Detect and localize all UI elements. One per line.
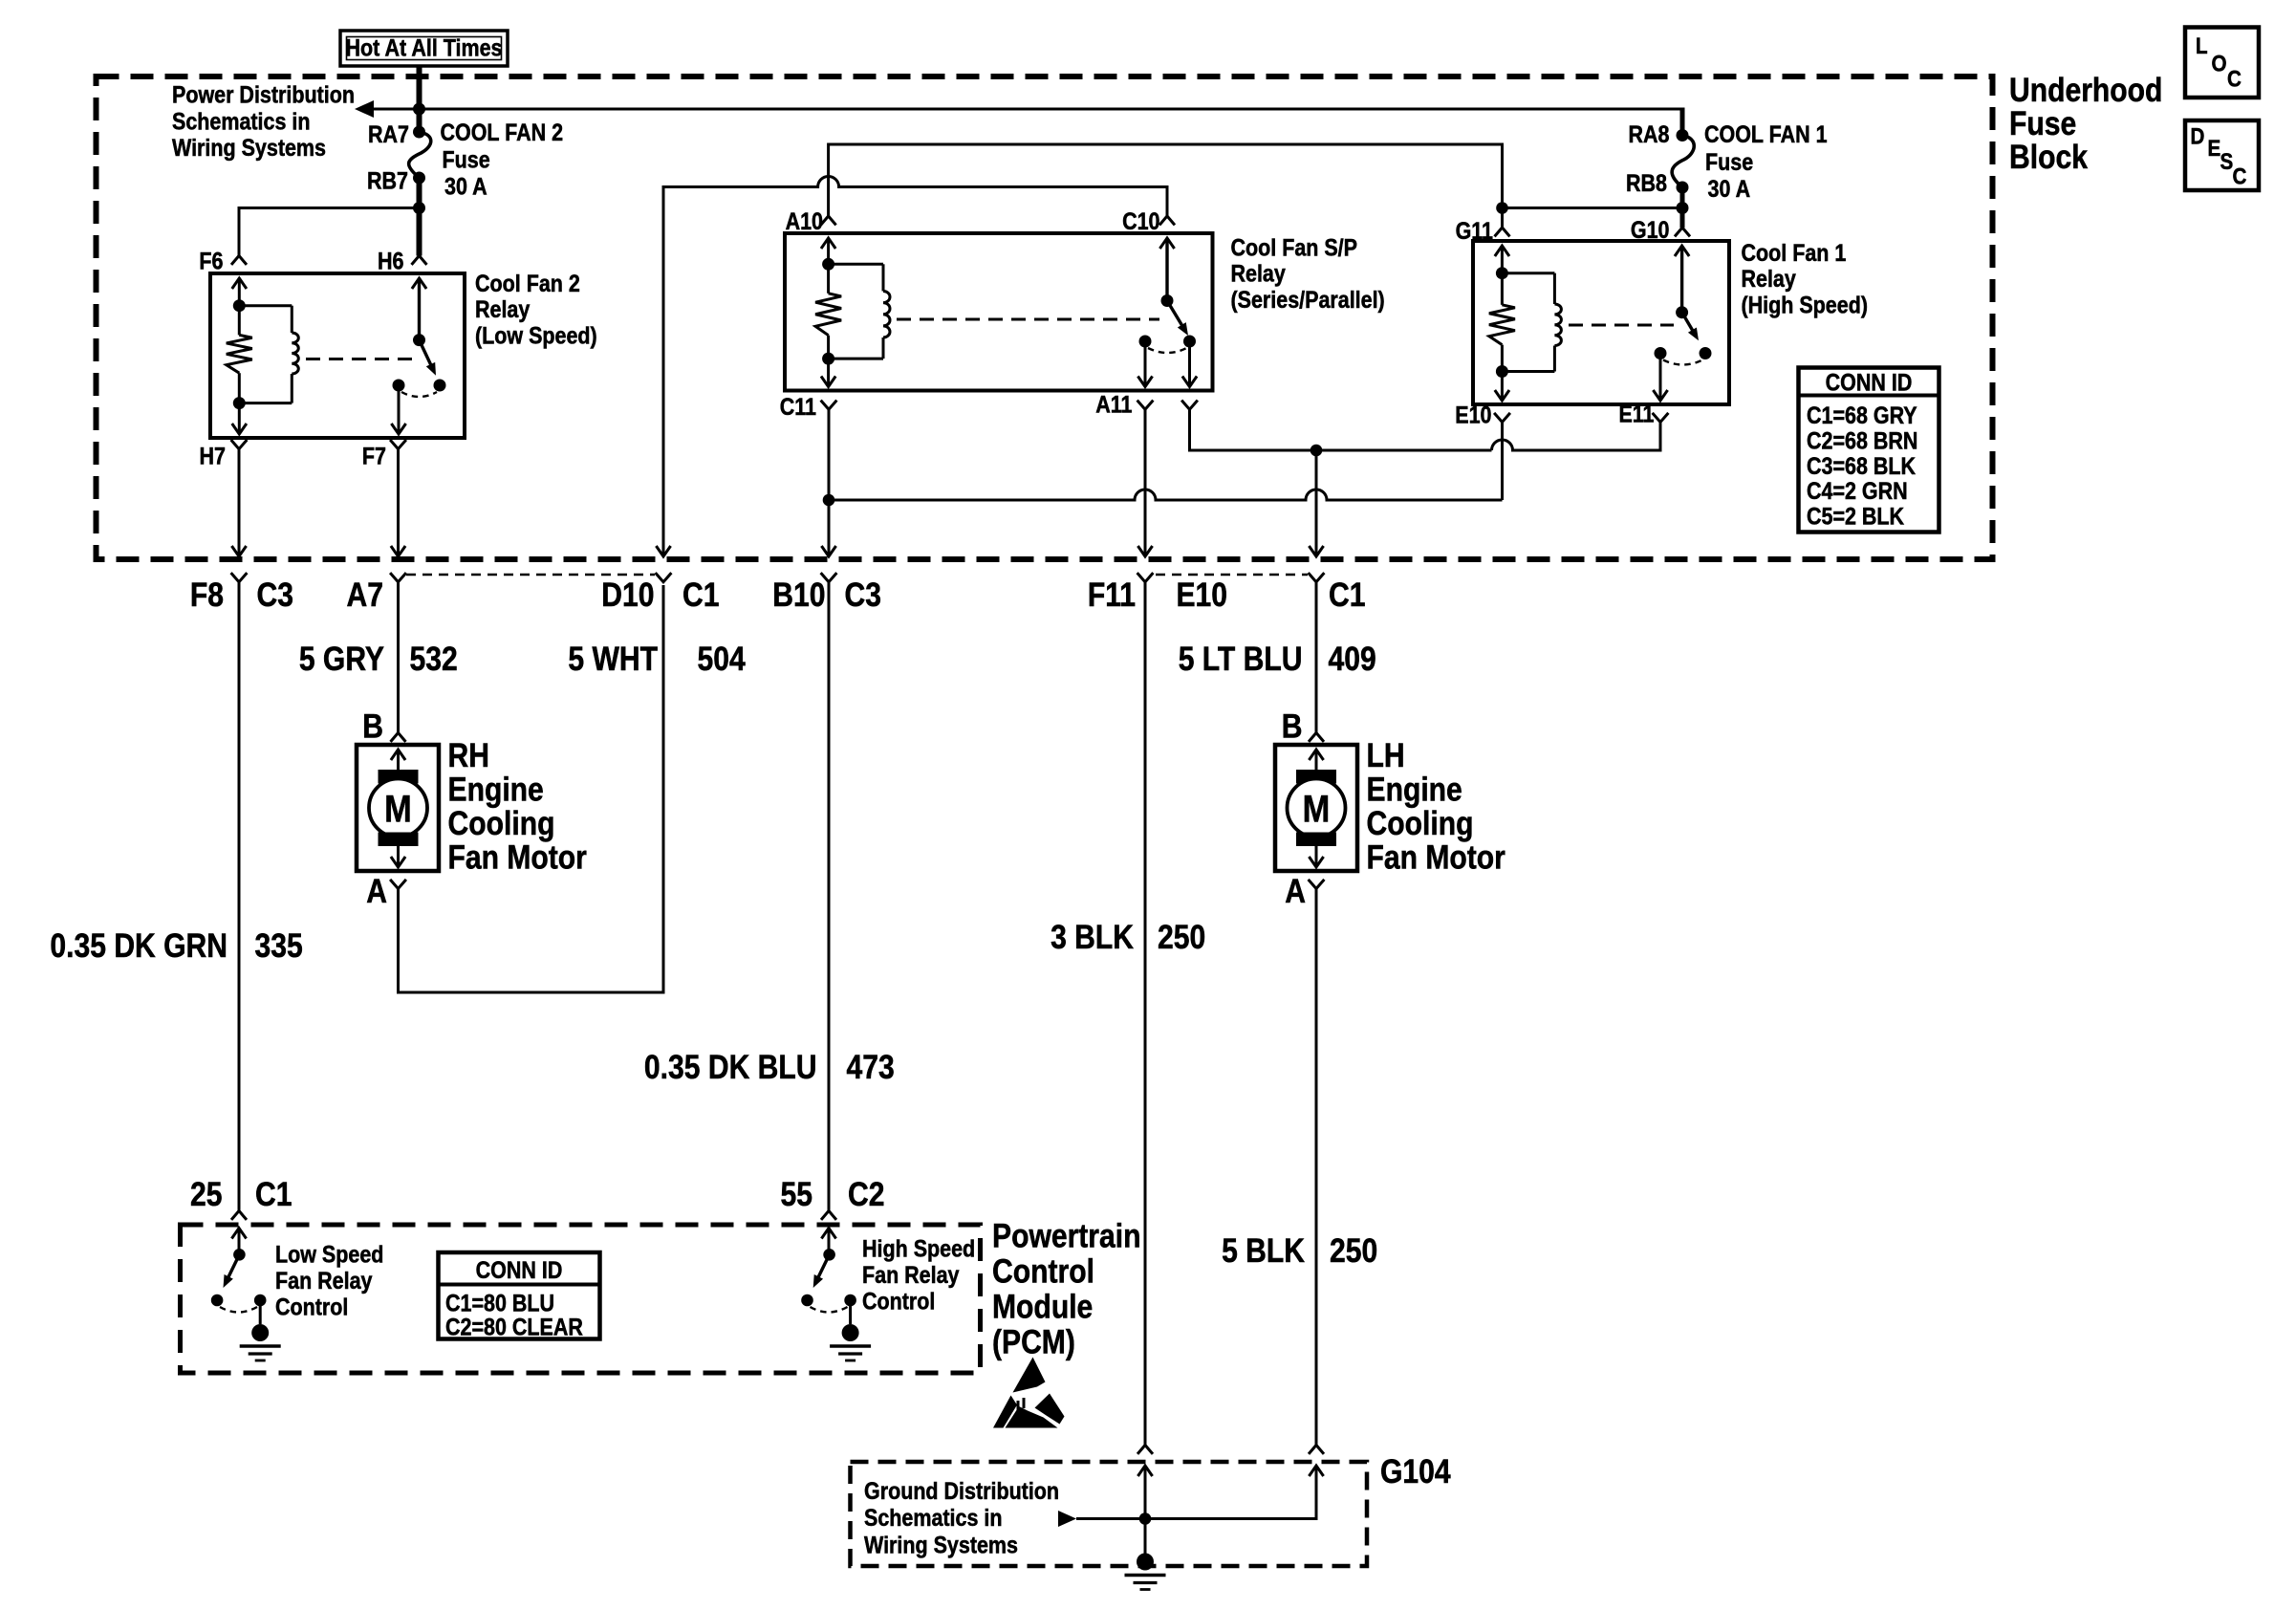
svg-text:Fuse: Fuse: [1705, 148, 1753, 175]
svg-text:Control: Control: [862, 1288, 935, 1315]
pin A of LH motor: [1309, 880, 1325, 889]
svg-text:L: L: [2196, 33, 2208, 59]
CONN ID table (PCM): [439, 1252, 600, 1339]
svg-text:RH: RH: [448, 736, 489, 774]
high speed fan relay control switch: [821, 1229, 835, 1239]
pin 55/C2 of PCM: [821, 1211, 836, 1220]
svg-text:55: 55: [781, 1175, 812, 1213]
connector dashed line A7 to D10: [406, 574, 655, 577]
svg-text:250: 250: [1330, 1231, 1377, 1270]
wire: E10/C1 to LH motor B: [1315, 582, 1318, 733]
svg-text:Cooling: Cooling: [1367, 804, 1474, 842]
svg-text:C10: C10: [1122, 207, 1159, 234]
node: RB8 lower junction: [1677, 202, 1689, 214]
CONN ID table (underhood fuse block): [1799, 368, 1939, 533]
svg-text:250: 250: [1158, 918, 1205, 956]
node G104 junction: [1139, 1512, 1152, 1525]
svg-text:C: C: [2227, 66, 2242, 92]
svg-text:High Speed: High Speed: [862, 1235, 975, 1262]
svg-text:Wiring Systems: Wiring Systems: [172, 135, 326, 162]
ground symbol (low speed control): [251, 1324, 269, 1341]
svg-text:C1: C1: [1329, 576, 1365, 614]
svg-text:Control: Control: [275, 1294, 348, 1320]
svg-text:C3: C3: [257, 576, 293, 614]
svg-text:Fan Motor: Fan Motor: [448, 838, 588, 876]
pin C10: [1159, 216, 1175, 225]
pin F11: [1137, 573, 1154, 582]
wire: F7 to connector A7: [397, 449, 400, 555]
pin E11: [1653, 413, 1669, 423]
wire: G11 drop to relay K3: [1501, 208, 1504, 228]
ESD sensitivity symbol: [1013, 1358, 1046, 1393]
svg-text:D10: D10: [601, 576, 654, 614]
node: C11 junction to E10: [823, 494, 835, 507]
svg-text:A7: A7: [347, 576, 383, 614]
svg-text:F6: F6: [199, 248, 223, 274]
svg-text:A11: A11: [1095, 391, 1132, 418]
svg-text:0.35 DK GRN: 0.35 DK GRN: [50, 926, 227, 965]
svg-text:RB7: RB7: [367, 167, 408, 194]
svg-text:Low Speed: Low Speed: [275, 1241, 383, 1268]
svg-text:473: 473: [847, 1048, 895, 1086]
svg-text:Underhood: Underhood: [2009, 71, 2162, 109]
svg-text:5 WHT: 5 WHT: [568, 640, 658, 678]
svg-text:C1=80 BLU: C1=80 BLU: [445, 1290, 554, 1316]
svg-text:30 A: 30 A: [444, 173, 487, 200]
svg-text:(High Speed): (High Speed): [1742, 292, 1868, 318]
node: E10/C1 branch junction: [1310, 445, 1323, 457]
svg-text:Fuse: Fuse: [443, 146, 490, 173]
svg-text:Power Distribution: Power Distribution: [172, 81, 355, 108]
svg-text:Fan Motor: Fan Motor: [1367, 838, 1506, 876]
svg-text:Fan Relay: Fan Relay: [275, 1268, 373, 1295]
pin K2 switch output (unnamed): [1181, 401, 1198, 410]
relay K2 Cool Fan S/P Relay (Series/Parallel): [785, 233, 1213, 391]
pin B of LH motor: [1309, 733, 1324, 742]
wire: E11 link continues over E10 column: [1492, 423, 1661, 451]
Ground Distribution dashed box: [851, 1462, 1368, 1566]
wire: H7 to connector F8: [238, 449, 241, 555]
svg-text:Relay: Relay: [1231, 260, 1286, 287]
wire: bus junction to fuse F1: [417, 109, 422, 132]
svg-text:B: B: [1282, 707, 1303, 745]
svg-text:Wiring Systems: Wiring Systems: [864, 1532, 1018, 1558]
svg-text:LH: LH: [1367, 736, 1405, 774]
node RB8: [1677, 182, 1689, 194]
pin H6: [412, 256, 427, 265]
svg-text:C2: C2: [848, 1175, 884, 1213]
pin LH motor ground at G104: [1309, 1446, 1324, 1454]
wire: C11 down to fuse block border: [828, 409, 831, 555]
svg-text:532: 532: [410, 640, 458, 678]
svg-text:COOL FAN 1: COOL FAN 1: [1704, 120, 1828, 147]
svg-text:Hot At All Times: Hot At All Times: [346, 34, 503, 61]
svg-text:(PCM): (PCM): [992, 1322, 1075, 1360]
relay K3 Cool Fan 1 Relay (High Speed): [1473, 241, 1729, 404]
svg-text:30 A: 30 A: [1708, 175, 1751, 202]
svg-text:H6: H6: [378, 248, 404, 274]
Powertrain Control Module dashed box: [181, 1225, 981, 1373]
svg-text:Cool Fan 1: Cool Fan 1: [1742, 239, 1847, 266]
svg-text:C3: C3: [845, 576, 881, 614]
svg-text:F7: F7: [362, 443, 386, 469]
svg-text:Engine: Engine: [448, 770, 544, 808]
wire: F8 to PCM pin 25: [238, 582, 241, 1211]
pin F7: [390, 440, 406, 449]
Hot At All Times box: [340, 31, 508, 66]
svg-text:RA7: RA7: [368, 120, 409, 147]
svg-text:(Low Speed): (Low Speed): [475, 322, 597, 349]
svg-text:Cooling: Cooling: [448, 804, 555, 842]
pin 25/C1 of PCM: [231, 1211, 247, 1220]
pin A of RH motor: [390, 880, 406, 889]
pin E10 of relay K3: [1494, 413, 1510, 423]
svg-text:C: C: [2233, 163, 2247, 189]
svg-text:S: S: [2220, 149, 2234, 175]
svg-text:C3=68 BLK: C3=68 BLK: [1807, 452, 1916, 479]
wire: LH motor A to ground G104: [1315, 889, 1318, 1446]
svg-text:504: 504: [698, 640, 746, 678]
node: F6 branch junction: [413, 202, 425, 214]
svg-text:Relay: Relay: [475, 296, 530, 323]
svg-text:C1=68 GRY: C1=68 GRY: [1807, 402, 1917, 428]
svg-text:Engine: Engine: [1367, 770, 1462, 808]
wire: F11 to ground G104: [1144, 582, 1147, 1446]
svg-text:CONN ID: CONN ID: [1826, 369, 1913, 396]
ground symbol (high speed control): [842, 1324, 859, 1341]
svg-text:C2=80 CLEAR: C2=80 CLEAR: [445, 1314, 583, 1340]
wire: D10 riser to relay K2 pin C10: [663, 177, 1167, 556]
arrow to Power Distribution Schematics: [355, 100, 374, 118]
svg-text:Relay: Relay: [1742, 266, 1796, 293]
wire: series link C11 to relay K3 pin E10: [829, 490, 1503, 500]
pin G10: [1675, 228, 1690, 236]
node RA8: [1677, 129, 1689, 141]
wire: power distribution bus to COOL FAN 1 fuse: [371, 108, 1682, 111]
svg-text:Ground Distribution: Ground Distribution: [864, 1477, 1059, 1504]
svg-text:B: B: [362, 707, 383, 745]
svg-text:CONN ID: CONN ID: [476, 1256, 563, 1283]
svg-text:Schematics in: Schematics in: [172, 108, 310, 135]
svg-text:E11: E11: [1618, 401, 1654, 427]
svg-text:3 BLK: 3 BLK: [1051, 918, 1134, 956]
svg-text:C4=2 GRN: C4=2 GRN: [1807, 478, 1908, 505]
node RA7: [413, 126, 425, 139]
svg-text:A: A: [366, 872, 387, 910]
wire: F11 inside ground box: [1137, 1466, 1152, 1476]
svg-text:335: 335: [255, 926, 303, 965]
fuse F1 COOL FAN 2 30A: [409, 132, 431, 177]
svg-text:B10: B10: [772, 576, 825, 614]
svg-text:G104: G104: [1380, 1452, 1451, 1490]
pin D10: [656, 573, 672, 582]
svg-text:RB8: RB8: [1626, 169, 1667, 196]
svg-text:RA8: RA8: [1629, 120, 1670, 147]
motor M2 LH Engine Cooling Fan Motor: [1275, 745, 1357, 871]
svg-text:O: O: [2212, 51, 2227, 76]
arrow from Ground Distribution Schematics: [1058, 1511, 1076, 1527]
wire: B10 to PCM pin 55: [828, 582, 831, 1211]
svg-text:E: E: [2208, 136, 2221, 162]
node RB7: [413, 172, 425, 185]
pin G11: [1495, 228, 1510, 236]
svg-text:C2=68 BRN: C2=68 BRN: [1807, 427, 1917, 454]
connector dashed line F11 to E10: [1156, 574, 1308, 577]
pin F8: [231, 573, 248, 582]
wire: branch to F6: [239, 207, 420, 209]
wire: LH return inside ground box: [1309, 1466, 1323, 1476]
wire: A11 down to fuse block border: [1144, 409, 1147, 555]
wire: E10/C1 drop to fuse block border: [1315, 450, 1318, 555]
svg-text:C5=2 BLK: C5=2 BLK: [1807, 503, 1904, 530]
wire: RH motor A return to D10: [399, 585, 664, 992]
pin B10: [821, 573, 837, 582]
pin H7: [231, 440, 248, 449]
svg-text:E10: E10: [1455, 402, 1491, 428]
svg-text:A: A: [1285, 872, 1306, 910]
svg-text:C11: C11: [780, 393, 816, 420]
svg-text:5 LT BLU: 5 LT BLU: [1179, 640, 1303, 678]
svg-text:C1: C1: [682, 576, 719, 614]
pin B of RH motor: [391, 733, 406, 742]
svg-text:E10: E10: [1176, 576, 1227, 614]
wire: A7 to RH motor B: [397, 582, 400, 733]
wire: G11 junction to RB8 junction: [1503, 207, 1683, 209]
wire: RB8 to junction: [1680, 187, 1685, 228]
LOC reference box: [2185, 28, 2259, 98]
svg-text:Cool Fan 2: Cool Fan 2: [475, 270, 580, 296]
svg-text:A10: A10: [786, 207, 823, 234]
svg-text:25: 25: [190, 1175, 222, 1213]
pin A7: [390, 573, 406, 582]
svg-text:5 BLK: 5 BLK: [1222, 1231, 1305, 1270]
svg-text:C1: C1: [255, 1175, 292, 1213]
Underhood Fuse Block dashed border: [97, 76, 1993, 559]
svg-text:D: D: [2191, 123, 2205, 149]
pin F11 at G104: [1137, 1446, 1153, 1454]
svg-text:Fuse: Fuse: [2009, 104, 2076, 142]
svg-text:COOL FAN 2: COOL FAN 2: [441, 119, 564, 145]
svg-text:409: 409: [1329, 640, 1376, 678]
relay K1 Cool Fan 2 Relay (Low Speed): [210, 273, 465, 438]
pin F6: [231, 256, 247, 265]
svg-text:Control: Control: [992, 1251, 1094, 1290]
wire: A10 riser from Cool Fan 1 feed: [829, 144, 1503, 216]
svg-text:F8: F8: [190, 576, 224, 614]
svg-text:Powertrain: Powertrain: [992, 1216, 1140, 1254]
svg-text:M: M: [384, 787, 412, 830]
fuse F2 COOL FAN 1 30A: [1672, 136, 1694, 187]
wire: RB7 down to relay K1 pin H6: [417, 178, 422, 256]
wire: K2 output to E11: [1190, 409, 1492, 450]
svg-text:M: M: [1303, 787, 1331, 830]
ground symbol G104: [1137, 1554, 1154, 1571]
low speed fan relay control switch: [231, 1229, 246, 1239]
wire: battery feed from Hot At All Times box: [417, 66, 422, 109]
pin C11: [821, 401, 837, 410]
DESC reference box: [2185, 120, 2259, 190]
svg-text:Schematics in: Schematics in: [864, 1505, 1002, 1532]
pin E10/C1: [1309, 573, 1325, 582]
svg-text:Cool Fan S/P: Cool Fan S/P: [1231, 234, 1357, 261]
svg-text:F11: F11: [1088, 576, 1136, 614]
node: G11 junction: [1496, 202, 1508, 214]
svg-text:Module: Module: [992, 1287, 1093, 1325]
node: feed junction below Hot At All Times: [413, 103, 425, 116]
svg-text:H7: H7: [200, 443, 226, 469]
svg-text:Fan Relay: Fan Relay: [862, 1262, 960, 1289]
svg-text:(Series/Parallel): (Series/Parallel): [1231, 286, 1385, 313]
pin A11: [1137, 401, 1154, 410]
svg-text:5 GRY: 5 GRY: [299, 640, 384, 678]
svg-text:Block: Block: [2009, 138, 2089, 176]
svg-text:0.35 DK BLU: 0.35 DK BLU: [644, 1048, 817, 1086]
motor M1 RH Engine Cooling Fan Motor: [357, 745, 439, 871]
pin A10: [821, 216, 836, 225]
